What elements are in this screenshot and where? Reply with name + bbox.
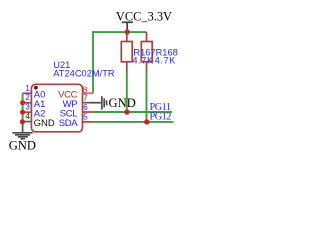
wire SCL / PG11 horizontal [93, 111, 172, 113]
svg-text:1: 1 [25, 84, 30, 93]
svg-text:7: 7 [83, 94, 88, 103]
ground symbol (left, below bus) [12, 123, 32, 139]
svg-text:GND: GND [34, 118, 55, 129]
pin 8 VCC [58, 84, 93, 100]
junction dot R168/SDA [144, 119, 149, 124]
wire R167 bottom to SCL net [126, 73, 128, 112]
svg-text:3: 3 [25, 103, 30, 112]
svg-text:PG12: PG12 [150, 111, 172, 122]
svg-text:GND: GND [9, 139, 36, 153]
pin 5 SDA [59, 112, 93, 129]
resistor R168 [141, 32, 152, 73]
svg-text:VCC_3.3V: VCC_3.3V [116, 10, 172, 24]
junction dot pin 2 [20, 100, 25, 105]
pin 6 SCL [60, 103, 93, 120]
svg-text:4.7K: 4.7K [132, 56, 154, 66]
power symbol VCC_3.3V [122, 22, 133, 32]
junction dot VCC rail / R167 [125, 29, 130, 34]
pin 1 indicator dot [34, 86, 38, 90]
IC U21 body [31, 84, 82, 132]
wire A0/A1/A2/GND bus vertical [22, 93, 24, 121]
pin 2 A1 [23, 93, 46, 110]
svg-text:5: 5 [83, 112, 88, 121]
svg-text:GND: GND [109, 96, 136, 110]
junction dot pin 4 [20, 119, 25, 124]
svg-text:6: 6 [83, 103, 88, 112]
svg-text:AT24C02M/TR: AT24C02M/TR [53, 69, 115, 79]
svg-text:4.7K: 4.7K [155, 56, 177, 66]
pin 3 A2 [23, 103, 46, 120]
svg-text:SDA: SDA [59, 118, 78, 129]
wire VCC rail (vertical drop to pin 8 and horizontal rail) [93, 32, 147, 93]
junction dot R167/SCL [124, 110, 129, 115]
resistor R167 [121, 32, 132, 73]
ground symbol (at pin 7 WP, pointing right) [90, 96, 107, 109]
junction dot pin 3 [20, 110, 25, 115]
pin 1 A0 [23, 84, 46, 101]
svg-text:2: 2 [25, 93, 30, 102]
wire SDA / PG12 horizontal [93, 121, 174, 123]
svg-text:4: 4 [25, 112, 30, 121]
pin 4 GND [23, 112, 55, 129]
pin 7 WP [63, 94, 90, 110]
wire R168 bottom to SDA net [146, 73, 148, 122]
